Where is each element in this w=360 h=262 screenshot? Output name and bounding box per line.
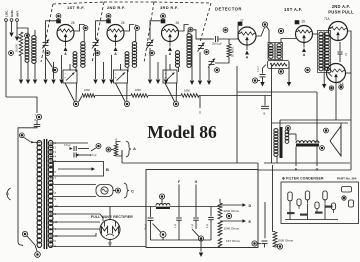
tube 71A lower push-pull [327, 64, 346, 83]
wire horizontal y120 output stage [280, 119, 351, 121]
node circled detector varcap [204, 50, 209, 55]
wire resistor bottom to ground [20, 56, 22, 79]
gang V wires stage1 [65, 83, 75, 102]
wire filter box left down [264, 202, 266, 238]
tube 1ST R.F. type 26 [57, 25, 74, 42]
variable tuning capacitor 1ST R.F. [43, 42, 49, 44]
tube 2ND R.F. type 26 [107, 25, 124, 42]
varcap lower wire 2ND R.F. [95, 48, 97, 60]
potentiometer circled node [160, 232, 166, 238]
rectifier filament wire 2 [54, 233, 97, 236]
detector input transformer T3 primary [176, 51, 180, 55]
varcap lower wire 1ST R.F. [45, 48, 47, 60]
voltage divider resistor top 2240 Ohms [218, 203, 222, 219]
cathode stem of tube 2ND R.F. [115, 42, 117, 47]
transformer tap leads and numbers [50, 142, 54, 144]
tube 71A upper push-pull [329, 22, 348, 41]
voice coil choke horizontal [296, 141, 319, 143]
dashed shield box 1st R.F. [41, 4, 53, 62]
node circled above tube 3RD R.F. [161, 14, 166, 19]
coupling capacitor C between push-pull grids [339, 42, 341, 51]
wire B+ bus vertical x237 [236, 66, 238, 163]
svg-text:1ST A.F.: 1ST A.F. [284, 7, 303, 12]
wire bias bus [95, 95, 131, 97]
group C node circled [116, 188, 121, 193]
grid wire 2ND R.F. [96, 21, 107, 40]
wire into series capacitor [36, 120, 38, 124]
svg-text:10 MEG: 10 MEG [231, 47, 235, 57]
filter condenser box outline [281, 182, 359, 224]
wire T3 secondary to grid cap [187, 30, 189, 34]
wire choke left to T7 secondary [295, 134, 297, 141]
svg-text:25 µf: 25 µf [145, 224, 148, 230]
plate wire 2ND R.F. [124, 25, 134, 32]
node circled detector trimmer [215, 68, 220, 73]
wire from LOC terminal [5, 21, 7, 60]
trimmer capacitor box stage 1 [63, 70, 77, 83]
variable tuning capacitor 3RD R.F. [147, 42, 153, 44]
output transformer T7 core [280, 127, 283, 158]
node circled left of resistor [252, 241, 257, 246]
cathode stem of tube 3RD R.F. [169, 42, 171, 47]
node circled gang section 2 [124, 101, 129, 106]
wire T7 left down [276, 156, 278, 163]
wire from GND terminal [11, 21, 13, 32]
gang link wire stage1 upper [46, 57, 53, 68]
svg-text:1 µf: 1 µf [174, 224, 177, 228]
node circled detector bypass [252, 78, 257, 83]
node circled gang section 3 [173, 101, 178, 106]
node circled on divider [226, 213, 231, 218]
antenna coil L1 primary [25, 38, 29, 42]
dashed shield box detector [200, 3, 211, 42]
svg-text:G: G [195, 180, 198, 184]
wire bus y92 detector to pushpull [237, 91, 317, 93]
ground arrow below box [200, 241, 202, 252]
group A: switch blade [91, 148, 96, 151]
cathode stem of tube 1ST R.F. [65, 42, 67, 47]
wire output frame bottom y163 [264, 162, 350, 164]
svg-text:1ST R.F.: 1ST R.F. [67, 5, 85, 10]
output transformer T7 winding [274, 129, 278, 133]
filter condenser right units [342, 187, 352, 193]
power transformer T6 core laminations [43, 139, 45, 249]
wire vertical x271.5 AF return [271, 65, 273, 163]
power switch lower circled node [22, 231, 27, 236]
dashed shield box 2nd R.F. [92, 2, 104, 63]
grounds below stage 1ST R.F. [45, 60, 47, 79]
wire bus y207 choke to divider [170, 206, 220, 208]
svg-text:0.1 µf: 0.1 µf [258, 66, 260, 72]
rectifier plate wire right [54, 221, 101, 223]
svg-text:Model 86: Model 86 [147, 122, 217, 142]
wire node to T4 primary [267, 27, 270, 44]
group A: wires [111, 149, 114, 151]
AF transformer T4 core [274, 43, 276, 59]
svg-text:C: C [131, 189, 134, 194]
switch blade lower [27, 236, 35, 245]
capacitor on G line [193, 217, 199, 219]
svg-text:G: G [316, 168, 319, 172]
terminal GND. [10, 19, 13, 22]
svg-text:2ND A.F.: 2ND A.F. [332, 4, 350, 9]
tap E arrow [220, 220, 243, 222]
AF transformer T4 secondary winding [277, 44, 281, 47]
push-pull input transformer T5 core [323, 32, 325, 72]
grounds under detector stage [191, 35, 193, 80]
wire bus y207 from transformer to choke [54, 206, 157, 208]
svg-text:1 µf: 1 µf [191, 224, 194, 228]
group A: capacitors 0.5 uf [73, 146, 75, 151]
svg-text:⊕ FILTER CONDENSER: ⊕ FILTER CONDENSER [282, 177, 324, 181]
node circled T2 [135, 26, 140, 31]
node 2 circled [25, 33, 30, 38]
grid wire 1ST R.F. [46, 21, 57, 40]
grid wire 3RD R.F. [150, 21, 161, 40]
svg-text:26: 26 [302, 20, 306, 24]
plate wire 1ST R.F. [74, 25, 84, 32]
svg-text:A: A [133, 146, 136, 151]
output transformer T7 secondary small [285, 130, 289, 134]
wire from ANT terminal [16, 21, 18, 36]
rectifier filament wire 1 [54, 228, 100, 230]
resistor 1800 ohm bias bus 3 [181, 94, 199, 98]
voltage divider resistor bottom 157 Ohms [218, 238, 222, 247]
wire vertical x317 down to output [316, 92, 318, 143]
trimmer capacitor box stage 3 [163, 70, 177, 83]
resistor 1000 Ohms vertical [273, 232, 277, 247]
push-pull input transformer T5 primary [319, 32, 323, 36]
node 1 circled [9, 51, 14, 56]
wire cap left and down [18, 127, 37, 243]
speaker field nodes circled [324, 128, 329, 133]
node circled above tube 2ND R.F. [106, 14, 111, 19]
svg-text:1800: 1800 [135, 88, 141, 92]
wire left vertical from antenna [6, 97, 37, 113]
push-pull input transformer T5 secondary [325, 32, 329, 36]
filter condenser value bars [287, 212, 295, 214]
svg-text:B: B [106, 167, 109, 172]
bypass cap electrolytic on divider [210, 207, 212, 217]
node circled above T7 [286, 126, 291, 131]
wire to bottom terminal [35, 245, 37, 251]
gang V wires stage3 [165, 83, 175, 102]
wire grid cap to detector top cap [218, 26, 238, 40]
svg-text:B: B [264, 112, 266, 116]
detector tuning varcap [198, 45, 204, 47]
bottom terminal circled [35, 252, 41, 258]
grounds below stage 3RD R.F. [149, 60, 151, 79]
capacitor 25 uf inside box [150, 207, 152, 218]
nodes circled under lower 71A [329, 86, 333, 90]
node circled gang link 1 [52, 67, 57, 72]
pilot lamp [96, 185, 113, 197]
resistor 1800 ohm bias bus 2 [131, 94, 148, 98]
wire horizontal y163 [122, 162, 258, 164]
grid capacitor 250 uuf [196, 38, 214, 40]
wire bias bus continues right [199, 95, 272, 97]
svg-text:26: 26 [71, 21, 75, 25]
T5 bottom lead to ground [323, 73, 325, 85]
node circled gang section 1 [73, 101, 78, 106]
wire vertical x280 down to output transformer [279, 120, 281, 130]
receiver chassis box [146, 170, 258, 248]
terminal LOC. [5, 19, 8, 22]
wire horizontal y170 right segment [258, 169, 351, 171]
wires to ground bus inside box [162, 238, 164, 241]
capacitor beside node [262, 240, 268, 242]
grid leak resistor 10 MEG [227, 44, 231, 57]
node circled T1 [83, 26, 88, 31]
node circled T4 [278, 28, 283, 33]
detector plate wire [256, 28, 265, 37]
svg-text:PUSH PULL: PUSH PULL [328, 10, 354, 15]
rectifier plate wire left [54, 214, 104, 221]
wire bias bus 2 [148, 95, 181, 97]
wire below grid leak [215, 57, 229, 63]
plate wire 1st AF [313, 33, 318, 35]
grid wires push-pull [328, 27, 333, 30]
node circled below 1st AF [305, 67, 310, 72]
node circled pot 2 [198, 236, 203, 241]
resistor R1 50,000 ohms antenna [19, 32, 23, 56]
node circled detector plate [262, 22, 267, 27]
terminal ANT. [16, 19, 19, 22]
group A: node circled 2 [106, 147, 111, 152]
svg-text:D: D [249, 204, 252, 208]
wire vertical x258 into box [257, 163, 259, 170]
series capacitor on primary lead [34, 124, 41, 126]
svg-text:1540 Ohms: 1540 Ohms [224, 227, 240, 231]
AF transformer T4 frame [268, 43, 283, 60]
svg-text:2 µf: 2 µf [206, 224, 209, 228]
varcap lower wire 3RD R.F. [149, 48, 151, 60]
power transformer T6 secondary winding [48, 140, 53, 145]
grid wire 1st AF [281, 39, 296, 44]
node circled T3 [188, 27, 193, 32]
variable tuning capacitor 2ND R.F. [93, 42, 99, 44]
group C wires [54, 184, 97, 186]
cathode stem detector [246, 45, 248, 50]
group B arrow inside [58, 168, 92, 170]
svg-text:50,000: 50,000 [15, 44, 19, 52]
wire resistor box down to ground [288, 62, 290, 83]
tube 1st A.F. type 26 [296, 26, 313, 43]
node circled above choke [159, 194, 164, 199]
svg-text:F: F [295, 168, 297, 172]
svg-text:2240 Ohms: 2240 Ohms [224, 209, 240, 213]
filter condenser units [288, 192, 292, 201]
tube detector type 27 [238, 27, 256, 45]
rectifier feed wire top [109, 207, 111, 220]
svg-text:LOC.: LOC. [4, 10, 8, 17]
AF transformer T4 primary winding [269, 44, 273, 47]
plate wire 3RD R.F. [179, 25, 189, 32]
wire antenna top to coil [5, 60, 7, 97]
antenna coil L1 secondary [32, 36, 36, 40]
node circled under T4 [278, 69, 283, 74]
interstage transformer T2 secondary [132, 42, 136, 46]
group A: node circled [96, 144, 101, 149]
node circled below varcap 2ND R.F. [95, 51, 100, 56]
svg-text:71A: 71A [324, 17, 331, 21]
svg-text:157 Ohms: 157 Ohms [226, 239, 240, 243]
tube 3RD R.F. type 26 [162, 25, 179, 42]
group B box [54, 162, 104, 177]
svg-text:2ND R.F.: 2ND R.F. [107, 5, 126, 10]
detector input transformer T3 secondary [187, 34, 191, 38]
svg-text:3RD R.F.: 3RD R.F. [160, 5, 179, 10]
svg-text:26: 26 [176, 21, 180, 25]
speaker cone [330, 126, 341, 156]
interstage transformer T1 primary [73, 52, 77, 56]
svg-text:GND.: GND. [10, 9, 14, 17]
trimmer capacitor box stage 2 [114, 70, 128, 83]
detector bypass capacitor [263, 65, 267, 69]
filter choke horizontal [156, 204, 170, 206]
node circled above grid cap [223, 28, 228, 33]
interstage transformer T1 secondary [81, 42, 85, 46]
svg-text:0.5 µf: 0.5 µf [64, 144, 71, 147]
gang V wires stage2 [116, 83, 126, 102]
svg-text:0: 0 [199, 111, 201, 115]
power transformer T6 primary winding [37, 140, 42, 145]
svg-text:1800: 1800 [184, 89, 190, 93]
node circled 7/8 on left wire [36, 114, 41, 119]
capacitor branch from bias bus [264, 96, 266, 106]
wire down from output to resistor [272, 165, 274, 232]
wire transformer tap1 to group A [54, 142, 89, 144]
group A bracket [126, 141, 131, 157]
rectifier tube 80 [100, 220, 120, 240]
cathode stem 1st AF [303, 43, 305, 48]
group A: resistor vertical [114, 144, 118, 156]
node circled below varcap 1ST R.F. [45, 51, 50, 56]
output unit frame [272, 122, 348, 124]
group C bracket [124, 183, 129, 198]
dashed shield box 3rd R.F. [144, 2, 154, 63]
svg-text:F: F [178, 180, 180, 184]
push-pull plate wires [348, 31, 352, 120]
resistor box under T4 [268, 61, 290, 69]
capacitor on F line [176, 217, 182, 219]
svg-text:ANT.: ANT. [15, 10, 19, 17]
node circled above tube 1ST R.F. [56, 14, 61, 19]
svg-text:DETECTOR: DETECTOR [215, 7, 242, 12]
speaker cone stub to frame [340, 123, 342, 126]
wire from group A down [121, 150, 123, 163]
svg-text:26: 26 [121, 21, 125, 25]
rectifier bottom wire [54, 246, 147, 248]
node circled below varcap 3RD R.F. [150, 51, 155, 56]
push-pull input transformer T5 frame [318, 31, 331, 73]
interstage transformer T2 primary [125, 52, 129, 56]
grounds below stage 2ND R.F. [95, 60, 97, 79]
wire switch to transformer primary top [32, 141, 41, 143]
svg-text:1000 Ohms: 1000 Ohms [278, 239, 294, 243]
filter condenser internal wires [285, 219, 338, 221]
wire bias bus terminal drop [199, 96, 201, 109]
power switch upper [19, 133, 24, 138]
detector trimmer varcap [209, 61, 215, 63]
wires output transformer down F G [295, 147, 297, 167]
voltage divider resistor mid 1540 Ohms [218, 221, 222, 236]
tap D arrow [220, 204, 243, 206]
svg-text:FULL WAVE RECTIFIER: FULL WAVE RECTIFIER [91, 215, 133, 219]
svg-text:27: 27 [240, 19, 244, 23]
resistor 1800 ohm bias bus 1 [79, 96, 83, 102]
wire T1 primary top [83, 25, 85, 26]
node circled below resistor [277, 244, 282, 249]
svg-text:PART No. 264: PART No. 264 [337, 177, 357, 181]
svg-text:250 µµf: 250 µµf [212, 42, 222, 46]
svg-text:1800: 1800 [84, 88, 90, 92]
